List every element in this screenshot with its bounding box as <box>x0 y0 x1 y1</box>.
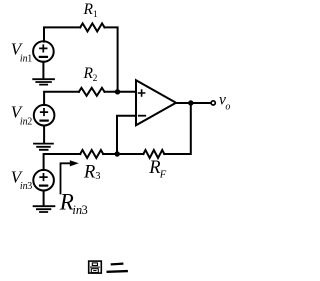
svg-text:1: 1 <box>27 53 32 64</box>
node: junction dot at + input <box>115 89 120 94</box>
svg-text:o: o <box>225 101 230 112</box>
wire: Vin2 bottom to ground <box>43 126 45 143</box>
ground (Vin1) <box>33 79 54 84</box>
wire: Vin1 bottom to ground <box>42 62 44 79</box>
label Vin3 <box>11 167 32 192</box>
node: junction dot at inverting feedback node <box>115 151 120 156</box>
Vin1 plus sign <box>40 45 47 51</box>
wire: - input loop down to feedback node <box>117 116 136 154</box>
Vin3 minus sign <box>40 185 47 187</box>
voltage source Vin2 <box>34 105 55 126</box>
svg-text:3: 3 <box>82 203 88 217</box>
op-amp U1 <box>136 80 176 125</box>
wire: R2 right to op-amp + input <box>105 91 137 93</box>
wire: RF right up to output node <box>164 103 191 154</box>
label Vin2 <box>11 103 32 128</box>
Vin2 minus sign <box>41 119 48 121</box>
svg-text:F: F <box>159 169 167 180</box>
resistor R3 <box>80 150 103 158</box>
svg-text:2: 2 <box>27 117 32 128</box>
ground (Vin3) <box>34 206 55 212</box>
ground (Vin2) <box>34 144 53 150</box>
node: output junction dot <box>188 100 193 105</box>
label Rin3 <box>59 190 88 217</box>
voltage source Vin3 <box>33 170 54 191</box>
wire: op-amp output to terminal <box>176 102 211 104</box>
wire: Vin3 bottom to ground <box>43 191 45 206</box>
caption 二 (two) drawn as strokes <box>108 264 127 272</box>
resistor RF <box>143 150 164 158</box>
label vo <box>219 92 230 113</box>
svg-text:R: R <box>148 158 160 178</box>
label R3 <box>83 163 100 183</box>
voltage source Vin1 <box>33 41 54 62</box>
op-amp - input marker <box>139 115 145 117</box>
terminal vo (open circle) <box>211 101 215 105</box>
arrow Rin3 (input-resistance arrow) <box>61 160 79 193</box>
Vin3 plus sign <box>40 174 47 180</box>
wire top row: Vin1 up and right to R1 <box>44 27 80 41</box>
wire bottom row: Vin3 up and right to R3 <box>44 154 81 170</box>
wire: R1 right to vertical down to + node <box>105 27 118 91</box>
svg-text:R: R <box>83 163 95 183</box>
wire row 2: Vin2 up and right to R2 <box>44 92 79 105</box>
svg-text:2: 2 <box>93 74 98 84</box>
svg-text:1: 1 <box>93 10 98 20</box>
svg-text:R: R <box>83 1 94 18</box>
resistor R1 <box>80 23 104 31</box>
svg-text:3: 3 <box>27 181 32 192</box>
wire: R3 right to RF left <box>103 153 143 155</box>
resistor R2 <box>79 88 105 96</box>
op-amp + input marker <box>139 90 145 96</box>
svg-text:3: 3 <box>95 171 100 182</box>
label Vin1 <box>11 39 32 64</box>
label RF <box>148 158 167 181</box>
Vin1 minus sign <box>40 56 47 58</box>
label R2 <box>83 65 98 84</box>
label R1 <box>83 1 99 20</box>
caption 圖 (figure) drawn as strokes <box>89 261 102 273</box>
Vin2 plus sign <box>41 109 48 115</box>
